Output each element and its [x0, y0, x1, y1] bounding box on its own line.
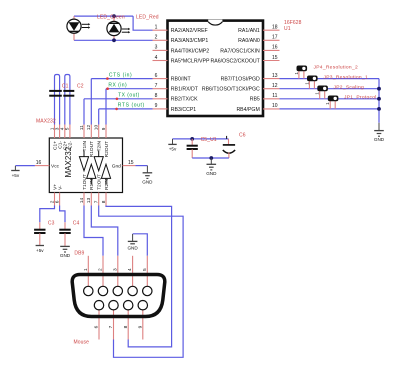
svg-text:GND: GND [142, 179, 153, 184]
svg-text:13: 13 [86, 198, 92, 204]
svg-text:RB0/INT: RB0/INT [171, 77, 192, 83]
svg-text:4: 4 [155, 55, 158, 61]
svg-text:RB7/T1OSI/PGD: RB7/T1OSI/PGD [221, 77, 260, 83]
svg-text:RTS (out): RTS (out) [118, 103, 145, 109]
svg-text:1: 1 [315, 92, 320, 95]
svg-text:15: 15 [272, 55, 278, 61]
svg-text:T1IN: T1IN [82, 140, 88, 151]
svg-text:15: 15 [128, 160, 134, 166]
svg-text:MAX232: MAX232 [36, 118, 56, 124]
svg-text:RA2/AN2/VREF: RA2/AN2/VREF [171, 28, 208, 34]
svg-text:DB9: DB9 [74, 251, 84, 257]
svg-text:1: 1 [325, 102, 330, 105]
svg-text:8: 8 [155, 93, 158, 99]
svg-text:1: 1 [155, 25, 158, 31]
svg-text:1: 1 [83, 268, 89, 271]
svg-text:GND: GND [206, 171, 217, 176]
svg-text:GND: GND [60, 253, 71, 258]
svg-text:2: 2 [155, 35, 158, 41]
svg-text:TX (out): TX (out) [118, 93, 140, 99]
svg-text:1: 1 [49, 127, 55, 130]
svg-text:3: 3 [155, 45, 158, 51]
svg-text:V-: V- [57, 185, 63, 190]
svg-text:GND: GND [127, 246, 138, 251]
svg-text:7: 7 [108, 325, 114, 328]
svg-text:RB5: RB5 [250, 97, 260, 103]
svg-text:17: 17 [272, 35, 278, 41]
svg-text:JP1_Protocol: JP1_Protocol [344, 94, 377, 100]
svg-text:C4: C4 [73, 221, 80, 227]
svg-text:R2OUT: R2OUT [104, 141, 110, 157]
svg-text:8: 8 [123, 325, 129, 328]
svg-text:1: 1 [304, 82, 309, 85]
svg-text:C5_U1: C5_U1 [201, 137, 217, 143]
svg-text:GND: GND [374, 137, 385, 142]
svg-text:+5v: +5v [36, 248, 44, 253]
svg-text:13: 13 [272, 73, 278, 79]
svg-text:RB4/PGM: RB4/PGM [236, 107, 259, 113]
svg-text:LED_Green: LED_Green [97, 14, 125, 20]
svg-text:RB2/TX/CK: RB2/TX/CK [171, 97, 198, 103]
svg-text:T2IN: T2IN [97, 140, 103, 151]
svg-text:16: 16 [272, 45, 278, 51]
svg-text:RA0/AN0: RA0/AN0 [238, 38, 260, 44]
svg-text:RB3/CCP1: RB3/CCP1 [171, 107, 196, 113]
svg-text:10: 10 [272, 103, 278, 109]
svg-text:LED_Red: LED_Red [136, 14, 159, 20]
svg-text:4: 4 [60, 127, 66, 130]
svg-text:Vcc: Vcc [51, 163, 60, 169]
svg-text:11: 11 [79, 125, 85, 130]
svg-text:C1: C1 [62, 84, 69, 90]
svg-text:16: 16 [36, 160, 42, 166]
svg-text:C2: C2 [77, 84, 84, 90]
svg-text:6: 6 [54, 200, 60, 203]
svg-text:2: 2 [49, 200, 55, 203]
svg-text:RA6/OSC2/CKOOUT: RA6/OSC2/CKOOUT [211, 58, 261, 64]
svg-text:6: 6 [155, 73, 158, 79]
svg-text:C1+: C1+ [52, 141, 58, 150]
svg-text:RA4/T0KI/CMP2: RA4/T0KI/CMP2 [171, 48, 209, 54]
svg-text:3: 3 [112, 268, 118, 271]
svg-text:C2-: C2- [68, 141, 74, 149]
svg-text:11: 11 [272, 93, 277, 99]
svg-text:RB1/RX/DT: RB1/RX/DT [171, 87, 199, 93]
svg-text:RA5*MCLR/VPP: RA5*MCLR/VPP [171, 58, 210, 64]
svg-text:6: 6 [94, 325, 100, 328]
svg-text:RA1/AN1: RA1/AN1 [238, 28, 260, 34]
svg-text:9: 9 [101, 127, 107, 130]
svg-text:9: 9 [155, 103, 158, 109]
svg-text:3: 3 [54, 127, 60, 130]
svg-text:12: 12 [272, 83, 278, 89]
svg-text:C3: C3 [48, 221, 55, 227]
svg-text:Gnd: Gnd [112, 163, 121, 169]
svg-text:+5v: +5v [12, 173, 20, 178]
svg-text:C2+: C2+ [63, 141, 69, 150]
svg-text:RA3/AN3/CMP1: RA3/AN3/CMP1 [171, 38, 209, 44]
svg-text:JP4_Resolution_2: JP4_Resolution_2 [314, 64, 359, 70]
svg-text:RB6/T1OSO/T1CKI/PGC: RB6/T1OSO/T1CKI/PGC [202, 87, 260, 93]
svg-text:12: 12 [86, 125, 92, 131]
svg-text:1: 1 [294, 72, 299, 75]
svg-text:V+: V+ [52, 184, 58, 190]
svg-text:Mouse: Mouse [74, 339, 90, 345]
svg-text:JP3_Resolution_1: JP3_Resolution_1 [324, 74, 369, 80]
svg-text:4: 4 [127, 268, 133, 271]
svg-text:R1IN: R1IN [89, 178, 95, 189]
svg-text:2: 2 [98, 268, 104, 271]
svg-text:5: 5 [65, 127, 71, 130]
svg-text:C1-: C1- [57, 141, 63, 149]
svg-text:+5v: +5v [169, 147, 177, 152]
svg-text:R1OUT: R1OUT [89, 141, 95, 157]
svg-text:5: 5 [142, 268, 148, 271]
svg-text:C6: C6 [239, 133, 246, 139]
svg-text:8: 8 [101, 200, 107, 203]
svg-text:14: 14 [79, 198, 85, 204]
svg-text:18: 18 [272, 25, 278, 31]
svg-text:U1: U1 [284, 26, 291, 32]
svg-text:RA7/OSC1/CKIN: RA7/OSC1/CKIN [220, 48, 260, 54]
svg-text:JP2_Scaling: JP2_Scaling [334, 84, 365, 90]
svg-text:R2IN: R2IN [104, 178, 110, 189]
svg-text:7: 7 [155, 83, 158, 89]
svg-text:10: 10 [94, 125, 100, 131]
svg-text:CTS (in): CTS (in) [109, 72, 132, 78]
svg-text:RX (in): RX (in) [108, 82, 127, 88]
svg-text:MAX232: MAX232 [64, 146, 73, 177]
svg-text:9: 9 [137, 325, 143, 328]
svg-text:7: 7 [94, 200, 100, 203]
